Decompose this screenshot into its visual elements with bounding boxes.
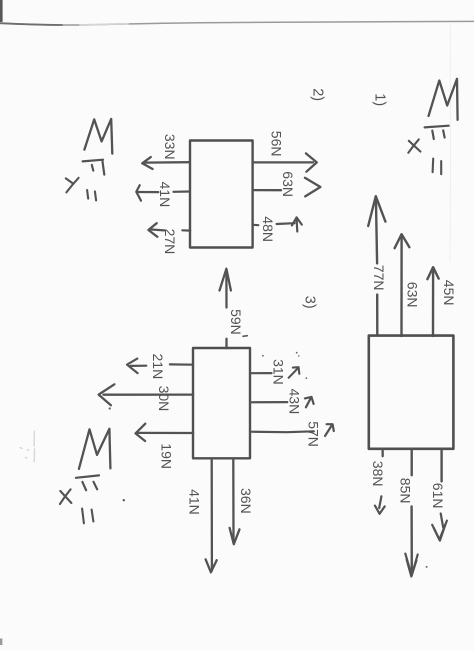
arrow 43N head bbox=[305, 397, 314, 407]
arrow 57N shaft bbox=[250, 430, 314, 433]
arrow 56N head bbox=[306, 153, 317, 171]
arrow 21N stub bbox=[170, 363, 193, 366]
svg-text:63N: 63N bbox=[404, 282, 420, 308]
label 38N bbox=[370, 461, 386, 487]
label 31N bbox=[271, 359, 287, 385]
label 43N bbox=[286, 389, 302, 415]
svg-text:48N: 48N bbox=[260, 216, 276, 242]
svg-text:85N: 85N bbox=[397, 478, 413, 504]
arrow 41N shaft bbox=[138, 190, 190, 193]
label 45N (problem 1) bbox=[441, 280, 457, 306]
scan edge bar top-left bbox=[0, 0, 3, 22]
svg-text:45N: 45N bbox=[441, 280, 457, 306]
arrow 27N head bbox=[148, 223, 157, 237]
label 57N bbox=[306, 421, 322, 447]
svg-text:41N: 41N bbox=[157, 182, 173, 208]
arrow 85N shaft bbox=[410, 449, 413, 573]
box problem 2 bbox=[190, 141, 253, 248]
dots near 31N bbox=[262, 352, 307, 379]
arrow 21N head bbox=[127, 359, 138, 374]
label 1) bbox=[372, 93, 388, 106]
arrow 63N head (problem 1) bbox=[395, 234, 410, 248]
paper crease faint vertical bbox=[449, 25, 452, 262]
svg-text:27N: 27N bbox=[162, 229, 178, 255]
arrow 61N shaft bbox=[440, 449, 442, 482]
arrow 36N head bbox=[230, 528, 240, 544]
label 36N bbox=[238, 488, 254, 514]
label 3) bbox=[302, 296, 318, 309]
svg-text:38N: 38N bbox=[370, 461, 386, 487]
svg-text:61N: 61N bbox=[430, 483, 446, 509]
handwritten F (problem 1) bbox=[425, 126, 449, 139]
arrow 48N head bbox=[292, 217, 302, 231]
faint smudge left bbox=[20, 431, 35, 462]
handwritten subscript x (problem 3) bbox=[60, 489, 72, 504]
svg-text:1): 1) bbox=[372, 93, 388, 106]
arrow 48N shaft bbox=[277, 222, 295, 225]
svg-text:56N: 56N bbox=[268, 131, 284, 157]
arrow 41N shaft (problem 3) bbox=[211, 459, 213, 571]
arrow 19N head bbox=[136, 424, 146, 441]
arrow 77N head bbox=[368, 196, 385, 226]
dash above box 3 bbox=[243, 335, 247, 338]
svg-text:43N: 43N bbox=[286, 389, 302, 415]
arrow 33N shaft bbox=[145, 161, 190, 164]
svg-text:33N: 33N bbox=[162, 134, 178, 160]
arrow 31N shaft bbox=[250, 372, 272, 374]
svg-text:2): 2) bbox=[310, 88, 326, 101]
arrow 57N head bbox=[325, 424, 334, 436]
arrow 63N shaft (problem 2) bbox=[253, 189, 281, 191]
arrow 21N shaft bbox=[131, 365, 147, 367]
arrow 30N shaft bbox=[104, 393, 194, 395]
handwritten sigma (problem 2) bbox=[84, 119, 112, 154]
svg-text:30N: 30N bbox=[156, 386, 172, 412]
arrow 41N head bbox=[136, 185, 141, 201]
label 41N (problem 2) bbox=[157, 182, 173, 208]
label 33N bbox=[162, 134, 178, 160]
arrow 85N head bbox=[405, 554, 417, 577]
arrow 63N shaft (problem 1) bbox=[400, 235, 403, 337]
arrow 30N head bbox=[99, 384, 115, 405]
label 61N bbox=[430, 483, 446, 509]
box problem 3 bbox=[193, 348, 250, 458]
label 27N bbox=[162, 229, 178, 255]
label 63N (problem 1) bbox=[404, 282, 420, 308]
dot below 30N head bbox=[109, 407, 111, 409]
scan top edge line bbox=[0, 21, 474, 25]
svg-text:36N: 36N bbox=[238, 488, 254, 514]
bottom-left speck bbox=[0, 639, 2, 646]
arrow 38N stub bbox=[381, 449, 383, 456]
arrow 45N head (problem 1) bbox=[427, 267, 438, 279]
label 77N bbox=[371, 265, 387, 291]
arrow 63N head (problem 2) bbox=[305, 178, 321, 197]
arrow 19N shaft bbox=[138, 432, 193, 434]
handwritten sigma (problem 1) bbox=[429, 79, 458, 120]
dot near x (problem 3) bbox=[123, 499, 125, 501]
arrow 59N shaft bbox=[225, 270, 227, 349]
arrow 31N head bbox=[289, 367, 300, 378]
label 48N bbox=[260, 216, 276, 242]
box problem 1 bbox=[369, 336, 454, 449]
label 19N bbox=[158, 443, 174, 469]
svg-text:57N: 57N bbox=[306, 421, 322, 447]
arrow 43N shaft bbox=[250, 401, 287, 403]
handwritten = (problem 1) bbox=[433, 159, 442, 175]
handwritten subscript x (problem 1) bbox=[408, 139, 420, 152]
arrow 56N shaft bbox=[253, 161, 313, 163]
label 56N bbox=[268, 131, 284, 157]
handwritten subscript y (problem 2) bbox=[66, 178, 79, 193]
svg-text:59N: 59N bbox=[228, 309, 244, 335]
svg-text:77N: 77N bbox=[371, 265, 387, 291]
arrow 77N shaft bbox=[376, 198, 377, 336]
label 2) bbox=[310, 88, 326, 101]
label 30N bbox=[156, 386, 172, 412]
handwritten = (problem 3) bbox=[82, 509, 93, 524]
arrow 36N shaft bbox=[232, 459, 234, 543]
svg-text:19N: 19N bbox=[158, 443, 174, 469]
arrow 45N shaft (problem 1) bbox=[432, 268, 435, 337]
label 85N bbox=[397, 478, 413, 504]
handwritten = (problem 2) bbox=[87, 190, 96, 200]
arrow 27N stub bbox=[182, 229, 190, 232]
arrow 59N head bbox=[220, 269, 231, 291]
arrow 27N shaft bbox=[149, 229, 164, 230]
label 41N (problem 3) bbox=[186, 489, 202, 515]
arrow 41N head (problem 3) bbox=[206, 559, 217, 572]
handwritten F (problem 3) bbox=[76, 475, 99, 490]
arrow 38N head bbox=[375, 496, 385, 514]
svg-text:31N: 31N bbox=[271, 359, 287, 385]
arrow 33N head bbox=[142, 157, 152, 169]
svg-text:3): 3) bbox=[302, 296, 318, 309]
label 21N bbox=[150, 354, 166, 380]
label 63N (problem 2) bbox=[280, 171, 296, 197]
svg-text:63N: 63N bbox=[280, 171, 296, 197]
label 59N bbox=[228, 309, 244, 335]
svg-text:41N: 41N bbox=[186, 489, 202, 515]
handwritten sigma (problem 3) bbox=[79, 429, 111, 469]
speck near 85N head bbox=[426, 566, 428, 568]
svg-text:21N: 21N bbox=[150, 354, 166, 380]
arrow 48N stub bbox=[253, 224, 258, 227]
handwritten F (problem 2) bbox=[83, 160, 105, 175]
arrow 61N head bbox=[432, 514, 447, 541]
